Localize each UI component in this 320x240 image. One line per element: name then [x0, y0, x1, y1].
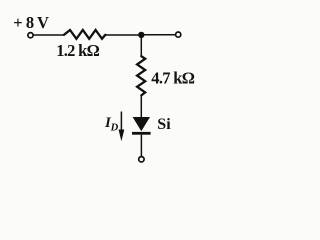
diode D1 anode triangle	[133, 117, 150, 131]
resistor R1 (1.2 kOhm, horizontal zigzag)	[64, 30, 105, 39]
svg-text:D: D	[110, 123, 119, 134]
svg-text:4.7 kΩ: 4.7 kΩ	[151, 69, 194, 88]
wire from R1 to node A	[105, 34, 141, 36]
terminal T3 (bottom, open circle)	[139, 157, 144, 162]
wire from D1 cathode to terminal T3	[140, 135, 142, 157]
current arrow ID (downward)	[120, 112, 122, 133]
svg-text:+ 8 V: + 8 V	[13, 13, 49, 32]
diode D1 cathode bar	[132, 132, 151, 135]
svg-text:1.2 kΩ: 1.2 kΩ	[56, 41, 99, 60]
wire from node A to terminal T2	[141, 34, 175, 36]
terminal T2 (output, open circle, top right)	[176, 32, 181, 37]
wire from T1 to resistor R1	[34, 34, 64, 36]
wire from node A down to resistor R2	[140, 35, 142, 56]
svg-text:Si: Si	[157, 116, 171, 133]
wire from R2 to diode D1 anode	[140, 95, 142, 117]
node A (junction dot)	[138, 32, 144, 38]
terminal T1 (+8V input, open circle)	[28, 33, 33, 38]
resistor R2 (4.7 kOhm, vertical zigzag)	[137, 56, 145, 95]
